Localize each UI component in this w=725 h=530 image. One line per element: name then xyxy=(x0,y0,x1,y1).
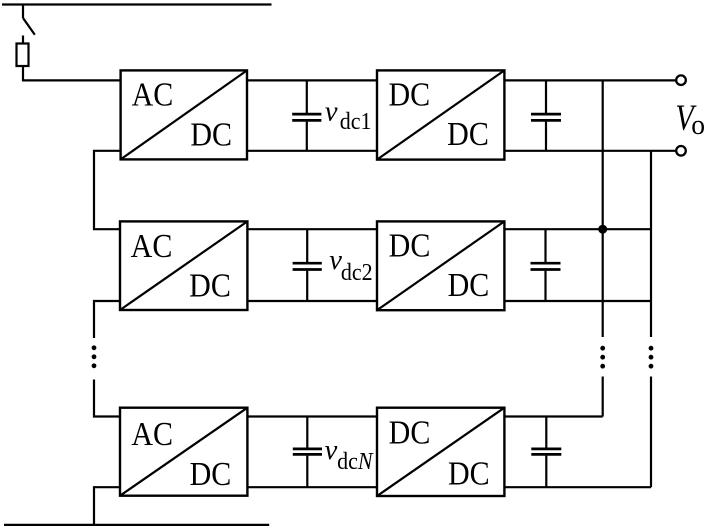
wire: module 1 output bottom to terminal xyxy=(504,150,676,152)
junction: bus1 to module 2 output top xyxy=(598,225,607,234)
converter module 2: DC/DC converter box xyxy=(377,221,504,310)
svg-text:DC: DC xyxy=(389,226,431,264)
value label v_dc2 xyxy=(329,245,372,286)
svg-text:o: o xyxy=(691,109,705,141)
svg-text:dc1: dc1 xyxy=(340,108,372,135)
converter module N: DC/DC converter box xyxy=(377,408,504,496)
capacitor: module N output filter cap xyxy=(531,417,561,488)
wire: module 2 dc-link top xyxy=(247,228,377,230)
switch S (breaker) xyxy=(23,5,35,44)
wire: bottom AC grid bus xyxy=(4,524,269,526)
capacitor: module 2 output filter cap xyxy=(531,229,561,301)
svg-text:DC: DC xyxy=(388,75,430,113)
wire: module N bottom return (left side) xyxy=(94,487,120,525)
svg-text:dc2: dc2 xyxy=(341,259,373,286)
svg-text:AC: AC xyxy=(131,414,173,452)
svg-text:DC: DC xyxy=(189,266,231,304)
wire: series link to module N top (left side, lower solid part) xyxy=(94,380,120,417)
wire: module N output top to bus1 xyxy=(504,415,602,417)
terminal: output + xyxy=(676,75,686,85)
svg-text:DC: DC xyxy=(447,114,489,152)
wire: module 1 dc-link bottom xyxy=(247,150,377,152)
wire: output bus1 (+) lower segment xyxy=(602,377,604,417)
wire: output bus2 (-) lower segment xyxy=(650,377,652,488)
svg-text:DC: DC xyxy=(190,115,232,153)
capacitor: module 1 output filter cap xyxy=(531,80,561,150)
svg-text:dcN: dcN xyxy=(337,448,374,475)
wire: resistor to module 1 AC input xyxy=(23,66,121,80)
wire: module N dc-link bottom xyxy=(247,486,377,488)
converter module 1: DC/DC converter box xyxy=(377,70,504,159)
converter module 2: AC/DC rectifier box xyxy=(120,221,247,310)
converter module N: AC/DC rectifier box xyxy=(120,408,247,496)
terminal: output - xyxy=(676,146,686,156)
capacitor: module 2 dc-link cap xyxy=(293,229,322,301)
value label v_dcN xyxy=(325,435,374,475)
wire: series link module2 bottom (left side, upper solid part) xyxy=(94,301,120,338)
wire: module 1 dc-link top xyxy=(247,79,377,81)
ellipsis: bus2 dots xyxy=(649,346,654,369)
wire: module 1 output top to terminal xyxy=(504,79,676,81)
svg-text:DC: DC xyxy=(190,454,232,492)
wire: series link module1 bottom to module2 top (left side) xyxy=(94,151,121,229)
capacitor: module N dc-link cap xyxy=(293,417,322,488)
converter module 1: AC/DC rectifier box xyxy=(121,70,247,159)
svg-text:AC: AC xyxy=(132,75,174,113)
capacitor: module 1 dc-link cap xyxy=(292,80,321,150)
svg-text:v: v xyxy=(325,97,338,128)
ellipsis: bus1 dots xyxy=(600,346,605,369)
svg-text:DC: DC xyxy=(389,413,431,451)
ellipsis: left series link dots xyxy=(92,345,97,368)
resistor (line impedance) xyxy=(17,44,29,67)
wire: module 2 dc-link bottom xyxy=(247,300,377,302)
wire: module N dc-link top xyxy=(247,415,377,417)
wire: top AC grid bus xyxy=(2,3,272,5)
label Vo (output voltage) xyxy=(675,98,705,141)
svg-text:AC: AC xyxy=(131,226,173,264)
wire: output bus2 (-) upper segment xyxy=(650,151,652,337)
wire: module 2 output bottom to parallel bus xyxy=(504,300,651,302)
svg-text:DC: DC xyxy=(448,454,490,492)
svg-text:v: v xyxy=(325,435,338,466)
value label v_dc1 xyxy=(325,97,372,136)
wire: module N output bottom to bus2 xyxy=(504,486,651,488)
wire: module 2 output top to parallel bus xyxy=(504,228,651,230)
svg-text:DC: DC xyxy=(448,265,490,303)
wire: output bus1 (+) upper segment xyxy=(602,80,604,337)
